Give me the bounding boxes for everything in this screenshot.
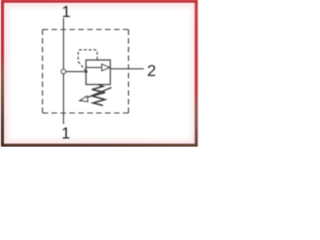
pilot line (dashed) [78, 50, 97, 71]
node circle port connection [61, 69, 65, 73]
junction dot [85, 70, 88, 73]
wire port 1 bottom vertical [63, 74, 65, 124]
wire input line [66, 71, 86, 73]
svg-text:1: 1 [61, 125, 70, 142]
wire port 1 top vertical [63, 18, 65, 69]
wire output line to port 2 [110, 68, 144, 70]
spring [92, 84, 105, 105]
svg-text:2: 2 [147, 63, 156, 80]
dashed enclosure box [43, 30, 129, 114]
adjustment arrow across spring [80, 88, 112, 102]
valve body square [86, 60, 110, 85]
flow path arrow inside valve [87, 64, 110, 71]
